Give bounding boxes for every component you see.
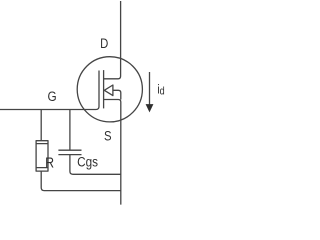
svg-text:S: S bbox=[104, 128, 112, 143]
transistor Q1 body-source link bbox=[113, 90, 121, 99]
transistor Q1 body arrow bbox=[104, 85, 113, 96]
svg-text:G: G bbox=[48, 88, 57, 104]
capacitor Cgs lead top bbox=[69, 110, 71, 151]
resistor R lead top bbox=[40, 110, 42, 141]
resistor R inner cap lines bbox=[36, 144, 48, 168]
wire resistor bottom to source rail bbox=[41, 171, 121, 191]
current arrow id head bbox=[146, 104, 154, 112]
transistor Q1 channel bar bbox=[103, 70, 105, 108]
wire source stub and source vertical S net bbox=[104, 100, 121, 205]
wire gate lead G net bbox=[0, 71, 99, 110]
svg-text:D: D bbox=[100, 36, 108, 51]
svg-text:id: id bbox=[157, 84, 164, 98]
svg-text:R: R bbox=[45, 155, 54, 171]
wire capacitor bottom to source rail bbox=[70, 155, 121, 175]
transistor Q1 body circle bbox=[77, 57, 142, 122]
capacitor Cgs plates bbox=[58, 150, 81, 154]
svg-text:Cgs: Cgs bbox=[77, 153, 98, 169]
wire drain vertical with drain stub bbox=[104, 1, 121, 79]
resistor R body bbox=[36, 141, 48, 171]
current arrow id shaft bbox=[149, 72, 151, 106]
